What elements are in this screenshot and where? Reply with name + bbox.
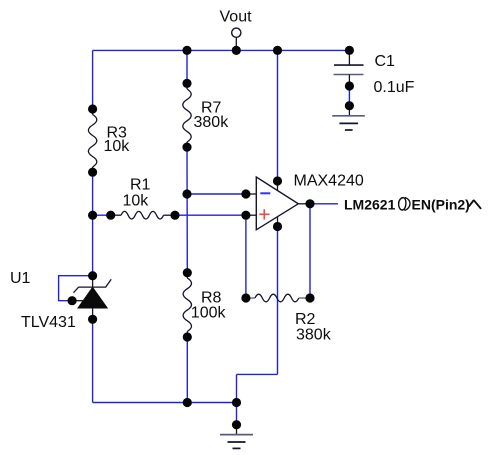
wire V- supply horizontal jog bbox=[237, 373, 278, 375]
wire C1 bottom to ground stub bbox=[348, 86, 350, 106]
glyph の bbox=[399, 198, 410, 211]
wire op-amp V- supply down bbox=[277, 227, 279, 375]
node op-amp V- pin bbox=[273, 222, 282, 231]
svg-text:LM2621: LM2621 bbox=[344, 197, 396, 213]
plus sign (non-inverting input) bbox=[259, 209, 269, 219]
wire R1 right lead to non-inverting input bbox=[175, 214, 246, 216]
svg-text:EN(Pin2): EN(Pin2) bbox=[412, 197, 470, 213]
resistor R3 bbox=[88, 109, 96, 172]
ground (main, bottom) bbox=[220, 425, 253, 449]
wire bottom rail bbox=[93, 402, 237, 404]
minus sign (inverting input) bbox=[260, 192, 270, 194]
node R1 left bbox=[106, 211, 115, 220]
wire top rail bbox=[93, 49, 350, 51]
terminal Vout bbox=[232, 28, 241, 50]
node R2 right bbox=[305, 293, 314, 302]
node R3 bottom bbox=[88, 168, 97, 177]
svg-text:380k: 380k bbox=[194, 114, 230, 131]
svg-text:Vout: Vout bbox=[220, 9, 253, 26]
resistor R8 bbox=[183, 273, 191, 337]
svg-text:10k: 10k bbox=[104, 138, 131, 155]
junction bottom rail / ground bbox=[232, 398, 241, 407]
svg-text:U1: U1 bbox=[10, 270, 31, 287]
op-amp U2 MAX4240 bbox=[246, 177, 310, 230]
node R1 right bbox=[170, 211, 179, 220]
node R8 top bbox=[183, 268, 192, 277]
resistor R2 bbox=[246, 294, 310, 302]
junction top rail / center rail bbox=[182, 46, 191, 55]
wire center rail top segment bbox=[186, 50, 188, 83]
resistor R7 bbox=[183, 83, 191, 147]
junction top rail / Vout bbox=[232, 46, 241, 55]
svg-text:380k: 380k bbox=[296, 327, 332, 344]
junction left rail / R1 bbox=[88, 211, 97, 220]
wire center rail mid segment (R7 to R8) bbox=[186, 147, 188, 273]
wire left rail upper segment bbox=[92, 50, 94, 109]
node ground stub bbox=[232, 420, 241, 429]
net label LM2621のEN(Pin2)へ bbox=[344, 197, 481, 213]
junction top rail / C1 bbox=[345, 46, 354, 55]
wire TLV431 ref loop bbox=[59, 276, 93, 301]
node op-amp V+ pin bbox=[273, 176, 282, 185]
wire bottom rail to ground stub bbox=[236, 403, 238, 425]
junction bottom rail / center rail bbox=[183, 398, 192, 407]
svg-text:R2: R2 bbox=[295, 311, 316, 328]
node TLV431 ref bbox=[68, 296, 77, 305]
wire output node down to R2 right bbox=[309, 204, 311, 298]
wire inverting input from divider node bbox=[187, 193, 246, 195]
node non-inverting input bbox=[241, 211, 250, 220]
node TLV431 cathode bbox=[88, 271, 97, 280]
node R2 left bbox=[241, 293, 250, 302]
wire op-amp V+ supply from top rail bbox=[277, 50, 279, 181]
junction divider node to inverting input bbox=[182, 189, 191, 198]
svg-text:TLV431: TLV431 bbox=[21, 314, 76, 331]
junction top rail / op-amp V+ bbox=[273, 46, 282, 55]
node R7 top bbox=[182, 79, 191, 88]
node R7 bottom bbox=[182, 143, 191, 152]
svg-text:0.1uF: 0.1uF bbox=[374, 79, 415, 96]
wire left rail to R1 left lead bbox=[93, 214, 111, 216]
capacitor C1 bbox=[334, 50, 364, 86]
svg-text:C1: C1 bbox=[375, 53, 396, 70]
wire left rail lower segment bbox=[92, 319, 94, 402]
ground (C1) bbox=[332, 106, 365, 130]
svg-text:100k: 100k bbox=[191, 304, 227, 321]
node R8 bottom bbox=[183, 332, 192, 341]
wire left rail mid segment (R3 to R1 node to TLV431) bbox=[92, 172, 94, 276]
glyph へ bbox=[469, 200, 480, 208]
wire jog down to bottom rail bbox=[236, 374, 238, 402]
node op-amp output bbox=[305, 199, 314, 208]
svg-text:R1: R1 bbox=[130, 177, 151, 194]
node inverting input bbox=[241, 189, 250, 198]
node TLV431 anode bbox=[88, 315, 97, 324]
wire center rail bottom segment bbox=[186, 337, 188, 403]
shunt regulator U1 TLV431 bbox=[72, 276, 111, 320]
resistor R1 bbox=[111, 211, 175, 219]
wire output to net label bbox=[310, 203, 338, 205]
node C1 ground stub bbox=[345, 101, 354, 110]
wire non-inverting node down to R2 left bbox=[245, 215, 247, 298]
node R3 top bbox=[88, 104, 97, 113]
node C1 bottom bbox=[345, 81, 354, 90]
svg-text:10k: 10k bbox=[123, 193, 150, 210]
svg-text:MAX4240: MAX4240 bbox=[294, 172, 364, 189]
